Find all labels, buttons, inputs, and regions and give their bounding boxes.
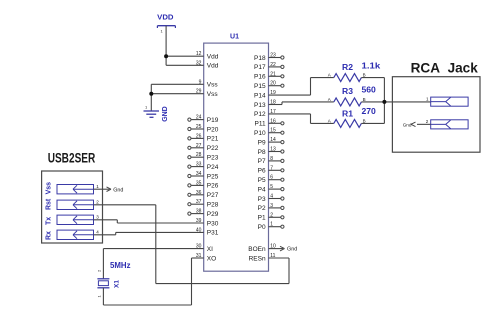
pin 15 P10 (U1 right)	[254, 128, 284, 137]
svg-text:Gnd: Gnd	[287, 247, 297, 253]
svg-text:P23: P23	[207, 155, 219, 162]
wire into R3 terminal A	[282, 101, 334, 103]
svg-text:1: 1	[161, 29, 164, 34]
pin 35 P26 (U1 left)	[188, 180, 219, 189]
wire Rst net horizontal from USB2SER pin 2	[94, 204, 156, 206]
svg-text:2: 2	[97, 269, 102, 272]
pin 36 P27 (U1 left)	[188, 190, 219, 199]
wire Tx into P30 pin 39	[117, 222, 203, 224]
net label Gnd arrow (USB2SER pin 1)	[107, 187, 124, 193]
wire P13 jog up	[281, 102, 283, 105]
svg-text:X1: X1	[114, 280, 121, 288]
svg-text:P2: P2	[258, 205, 266, 212]
wire Rx from USB2SER pin 4	[94, 234, 116, 236]
wire P14 pin 19 horizontal	[269, 94, 311, 96]
svg-text:XO: XO	[207, 255, 216, 262]
wire XI pin 30 to crystal	[103, 248, 203, 250]
wire crystal top vertical	[102, 249, 104, 279]
pin 31 XO (U1 left)	[196, 253, 216, 262]
svg-text:RCA Jack: RCA Jack	[411, 61, 479, 76]
pin 22 P17 (U1 right)	[254, 62, 284, 71]
pin 11 RESn (U1 right)	[249, 253, 276, 262]
wire ground vertical	[150, 84, 152, 111]
svg-text:1: 1	[426, 96, 429, 101]
wire RCA pin 2 stub	[417, 123, 431, 125]
pin 37 P28 (U1 left)	[188, 199, 219, 208]
svg-text:270: 270	[362, 106, 377, 116]
svg-text:U1: U1	[230, 32, 239, 41]
connector USB2SER outline	[42, 171, 103, 243]
wire Tx jog down	[116, 220, 118, 223]
svg-text:Vdd: Vdd	[207, 63, 219, 70]
pin 28 P23 (U1 left)	[188, 152, 219, 161]
svg-text:B: B	[363, 118, 366, 123]
connector RCA Jack outline	[392, 77, 480, 153]
resistor R1	[328, 106, 376, 127]
wire into XO pin 31	[192, 257, 204, 259]
svg-text:Rst: Rst	[46, 198, 53, 210]
svg-text:P28: P28	[207, 202, 219, 209]
svg-text:P12: P12	[254, 111, 266, 118]
pin 23 P18 (U1 right)	[254, 53, 284, 62]
pin 17 P12 (U1 right)	[254, 109, 276, 118]
wire P13 pin 18 stub	[269, 104, 283, 106]
svg-text:P29: P29	[207, 211, 219, 218]
svg-text:P15: P15	[254, 83, 266, 90]
wire crystal bottom vertical	[102, 288, 104, 305]
svg-text:XI: XI	[207, 246, 213, 253]
pin 13 P8 (U1 right)	[258, 147, 284, 156]
svg-text:P9: P9	[258, 139, 266, 146]
pin 38 P29 (U1 left)	[188, 209, 219, 218]
svg-text:P27: P27	[207, 192, 219, 199]
svg-text:B: B	[363, 97, 366, 102]
svg-text:A: A	[328, 118, 331, 123]
wire R1 B to bus	[361, 122, 384, 124]
pin 7 P6 (U1 right)	[258, 165, 284, 174]
svg-text:560: 560	[362, 85, 377, 95]
resistor R3	[328, 85, 376, 106]
svg-text:P16: P16	[254, 74, 266, 81]
wire Rst net bottom horizontal	[156, 283, 289, 285]
pin 19 P14 (U1 right)	[254, 90, 276, 99]
pin 34 P25 (U1 left)	[188, 171, 219, 180]
wire resistor output bus vertical	[383, 78, 385, 124]
ground GND symbol	[144, 105, 169, 122]
wire Rx jog up	[115, 232, 117, 234]
wire Tx from USB2SER pin 3	[94, 219, 118, 221]
power symbol VDD	[157, 12, 175, 33]
svg-text:Vss: Vss	[207, 91, 219, 98]
pin 5 P4 (U1 right)	[258, 184, 284, 193]
wire R3 B to RCA jack pin 1	[361, 101, 430, 103]
svg-text:RESn: RESn	[249, 255, 266, 262]
svg-text:P26: P26	[207, 183, 219, 190]
svg-text:P10: P10	[254, 130, 266, 137]
wire P14 vertical up to R2	[310, 78, 312, 96]
pin 1 P0 (U1 right)	[258, 222, 284, 231]
svg-text:P25: P25	[207, 173, 219, 180]
crystal X1	[97, 269, 121, 298]
wire into R1 terminal A	[311, 122, 334, 124]
resistor R2	[328, 61, 381, 82]
svg-text:P4: P4	[258, 186, 266, 193]
pin 20 P15 (U1 right)	[254, 81, 284, 90]
svg-text:P13: P13	[254, 102, 266, 109]
svg-text:2: 2	[96, 200, 99, 205]
wire Rst net vertical up to RESn	[288, 258, 290, 284]
pin 14 P9 (U1 right)	[258, 137, 284, 146]
svg-text:USB2SER: USB2SER	[48, 151, 96, 166]
svg-text:A: A	[328, 73, 331, 78]
wire Vss pin 9 to ground	[151, 83, 203, 85]
svg-text:1: 1	[145, 105, 148, 110]
svg-text:P5: P5	[258, 177, 266, 184]
svg-text:R2: R2	[342, 62, 353, 72]
pin 3 P2 (U1 right)	[258, 203, 284, 212]
RCA jack pin 1 socket symbol	[426, 96, 468, 106]
wire into R2 terminal A	[311, 77, 334, 79]
svg-text:P18: P18	[254, 55, 266, 62]
pin 8 P7 (U1 right)	[258, 156, 284, 165]
svg-text:P19: P19	[207, 117, 219, 124]
wire up to XO	[191, 258, 193, 305]
wire VDD to Vdd pin 12	[166, 55, 204, 57]
svg-text:VDD: VDD	[157, 12, 174, 21]
USB2SER pin 4 Rx plug symbol	[46, 230, 99, 240]
wire R2 B to bus	[361, 77, 384, 79]
svg-text:4: 4	[96, 230, 99, 235]
wire Rx into P31 pin 40	[116, 231, 204, 233]
net label Gnd arrow (BOEn)	[280, 246, 297, 252]
RCA jack pin 2 socket symbol	[426, 119, 468, 129]
svg-text:R3: R3	[342, 86, 353, 96]
svg-text:P20: P20	[207, 126, 219, 133]
svg-text:P8: P8	[258, 149, 266, 156]
pin 39 P30 (U1 left)	[196, 218, 219, 227]
svg-text:P6: P6	[258, 168, 266, 175]
pin 4 P3 (U1 right)	[258, 194, 284, 203]
svg-text:Gnd: Gnd	[113, 187, 123, 193]
pin 24 P19 (U1 left)	[188, 115, 219, 124]
svg-text:P14: P14	[254, 92, 266, 99]
pin 9 Vss (U1 left)	[199, 79, 219, 88]
USB2SER pin 3 Tx plug symbol	[46, 215, 99, 225]
wire VDD to Vdd pin 32	[166, 64, 204, 66]
svg-text:Vss: Vss	[207, 82, 219, 89]
svg-text:Vdd: Vdd	[207, 54, 219, 61]
pin 2 P1 (U1 right)	[258, 212, 284, 221]
svg-text:P31: P31	[207, 230, 219, 237]
svg-text:BOEn: BOEn	[248, 246, 266, 253]
USB2SER pin 1 Vss plug symbol	[46, 182, 99, 195]
wire crystal bottom horizontal	[103, 304, 191, 306]
svg-text:B: B	[363, 73, 366, 78]
USB2SER pin 2 Rst plug symbol	[46, 198, 99, 210]
pin 32 Vdd (U1 left)	[196, 60, 219, 69]
pin 30 XI (U1 left)	[196, 244, 213, 253]
svg-text:3: 3	[96, 215, 99, 220]
svg-text:P1: P1	[258, 215, 266, 222]
svg-text:Gnd: Gnd	[403, 122, 412, 127]
pin 29 Vss (U1 left)	[196, 89, 219, 98]
svg-text:1: 1	[97, 295, 102, 298]
pin 27 P22 (U1 left)	[188, 143, 219, 152]
pin 33 P24 (U1 left)	[188, 162, 219, 171]
svg-text:P24: P24	[207, 164, 219, 171]
svg-text:P30: P30	[207, 220, 219, 227]
pin 25 P20 (U1 left)	[188, 124, 219, 133]
junction VDD node	[164, 54, 168, 58]
junction video node	[382, 100, 386, 104]
pin 6 P5 (U1 right)	[258, 175, 284, 184]
pin 26 P21 (U1 left)	[188, 133, 219, 142]
pin 21 P16 (U1 right)	[254, 71, 284, 80]
wire VDD vertical	[165, 26, 167, 66]
svg-text:1.1k: 1.1k	[362, 61, 381, 71]
svg-text:GND: GND	[160, 106, 169, 122]
svg-text:Tx: Tx	[46, 217, 53, 225]
wire Rst net vertical down	[155, 205, 157, 284]
wire P12 vertical down to R1	[310, 114, 312, 124]
svg-text:1: 1	[96, 184, 99, 189]
wire Rst net into RESn pin 11	[269, 257, 290, 259]
pin 18 P13 (U1 right)	[254, 100, 276, 109]
svg-text:5MHz: 5MHz	[110, 261, 131, 270]
pin 10 BOEn (U1 right)	[248, 244, 276, 253]
pin 16 P11 (U1 right)	[255, 118, 284, 127]
IC U1 Propeller microcontroller	[204, 43, 269, 271]
wire BOEn pin 10 stub	[269, 248, 284, 250]
pin 40 P31 (U1 left)	[196, 227, 219, 236]
svg-text:P22: P22	[207, 145, 219, 152]
wire USB2SER pin 1 stub	[94, 188, 110, 190]
svg-text:2: 2	[426, 119, 429, 124]
svg-text:P17: P17	[254, 64, 266, 71]
svg-text:P0: P0	[258, 224, 266, 231]
net label Gnd arrow (RCA pin 2)	[403, 122, 416, 127]
svg-text:P21: P21	[207, 136, 219, 143]
svg-text:Vss: Vss	[46, 182, 53, 195]
wire Vss pin 29 to ground	[151, 93, 203, 95]
junction GND node	[149, 92, 153, 96]
svg-text:Rx: Rx	[46, 231, 53, 240]
svg-text:P3: P3	[258, 196, 266, 203]
svg-text:A: A	[328, 97, 331, 102]
svg-text:R1: R1	[342, 109, 353, 119]
svg-text:P7: P7	[258, 158, 266, 165]
pin 12 Vdd (U1 left)	[196, 51, 219, 60]
svg-text:P11: P11	[255, 121, 266, 128]
wire P12 pin 17 horizontal	[269, 113, 311, 115]
